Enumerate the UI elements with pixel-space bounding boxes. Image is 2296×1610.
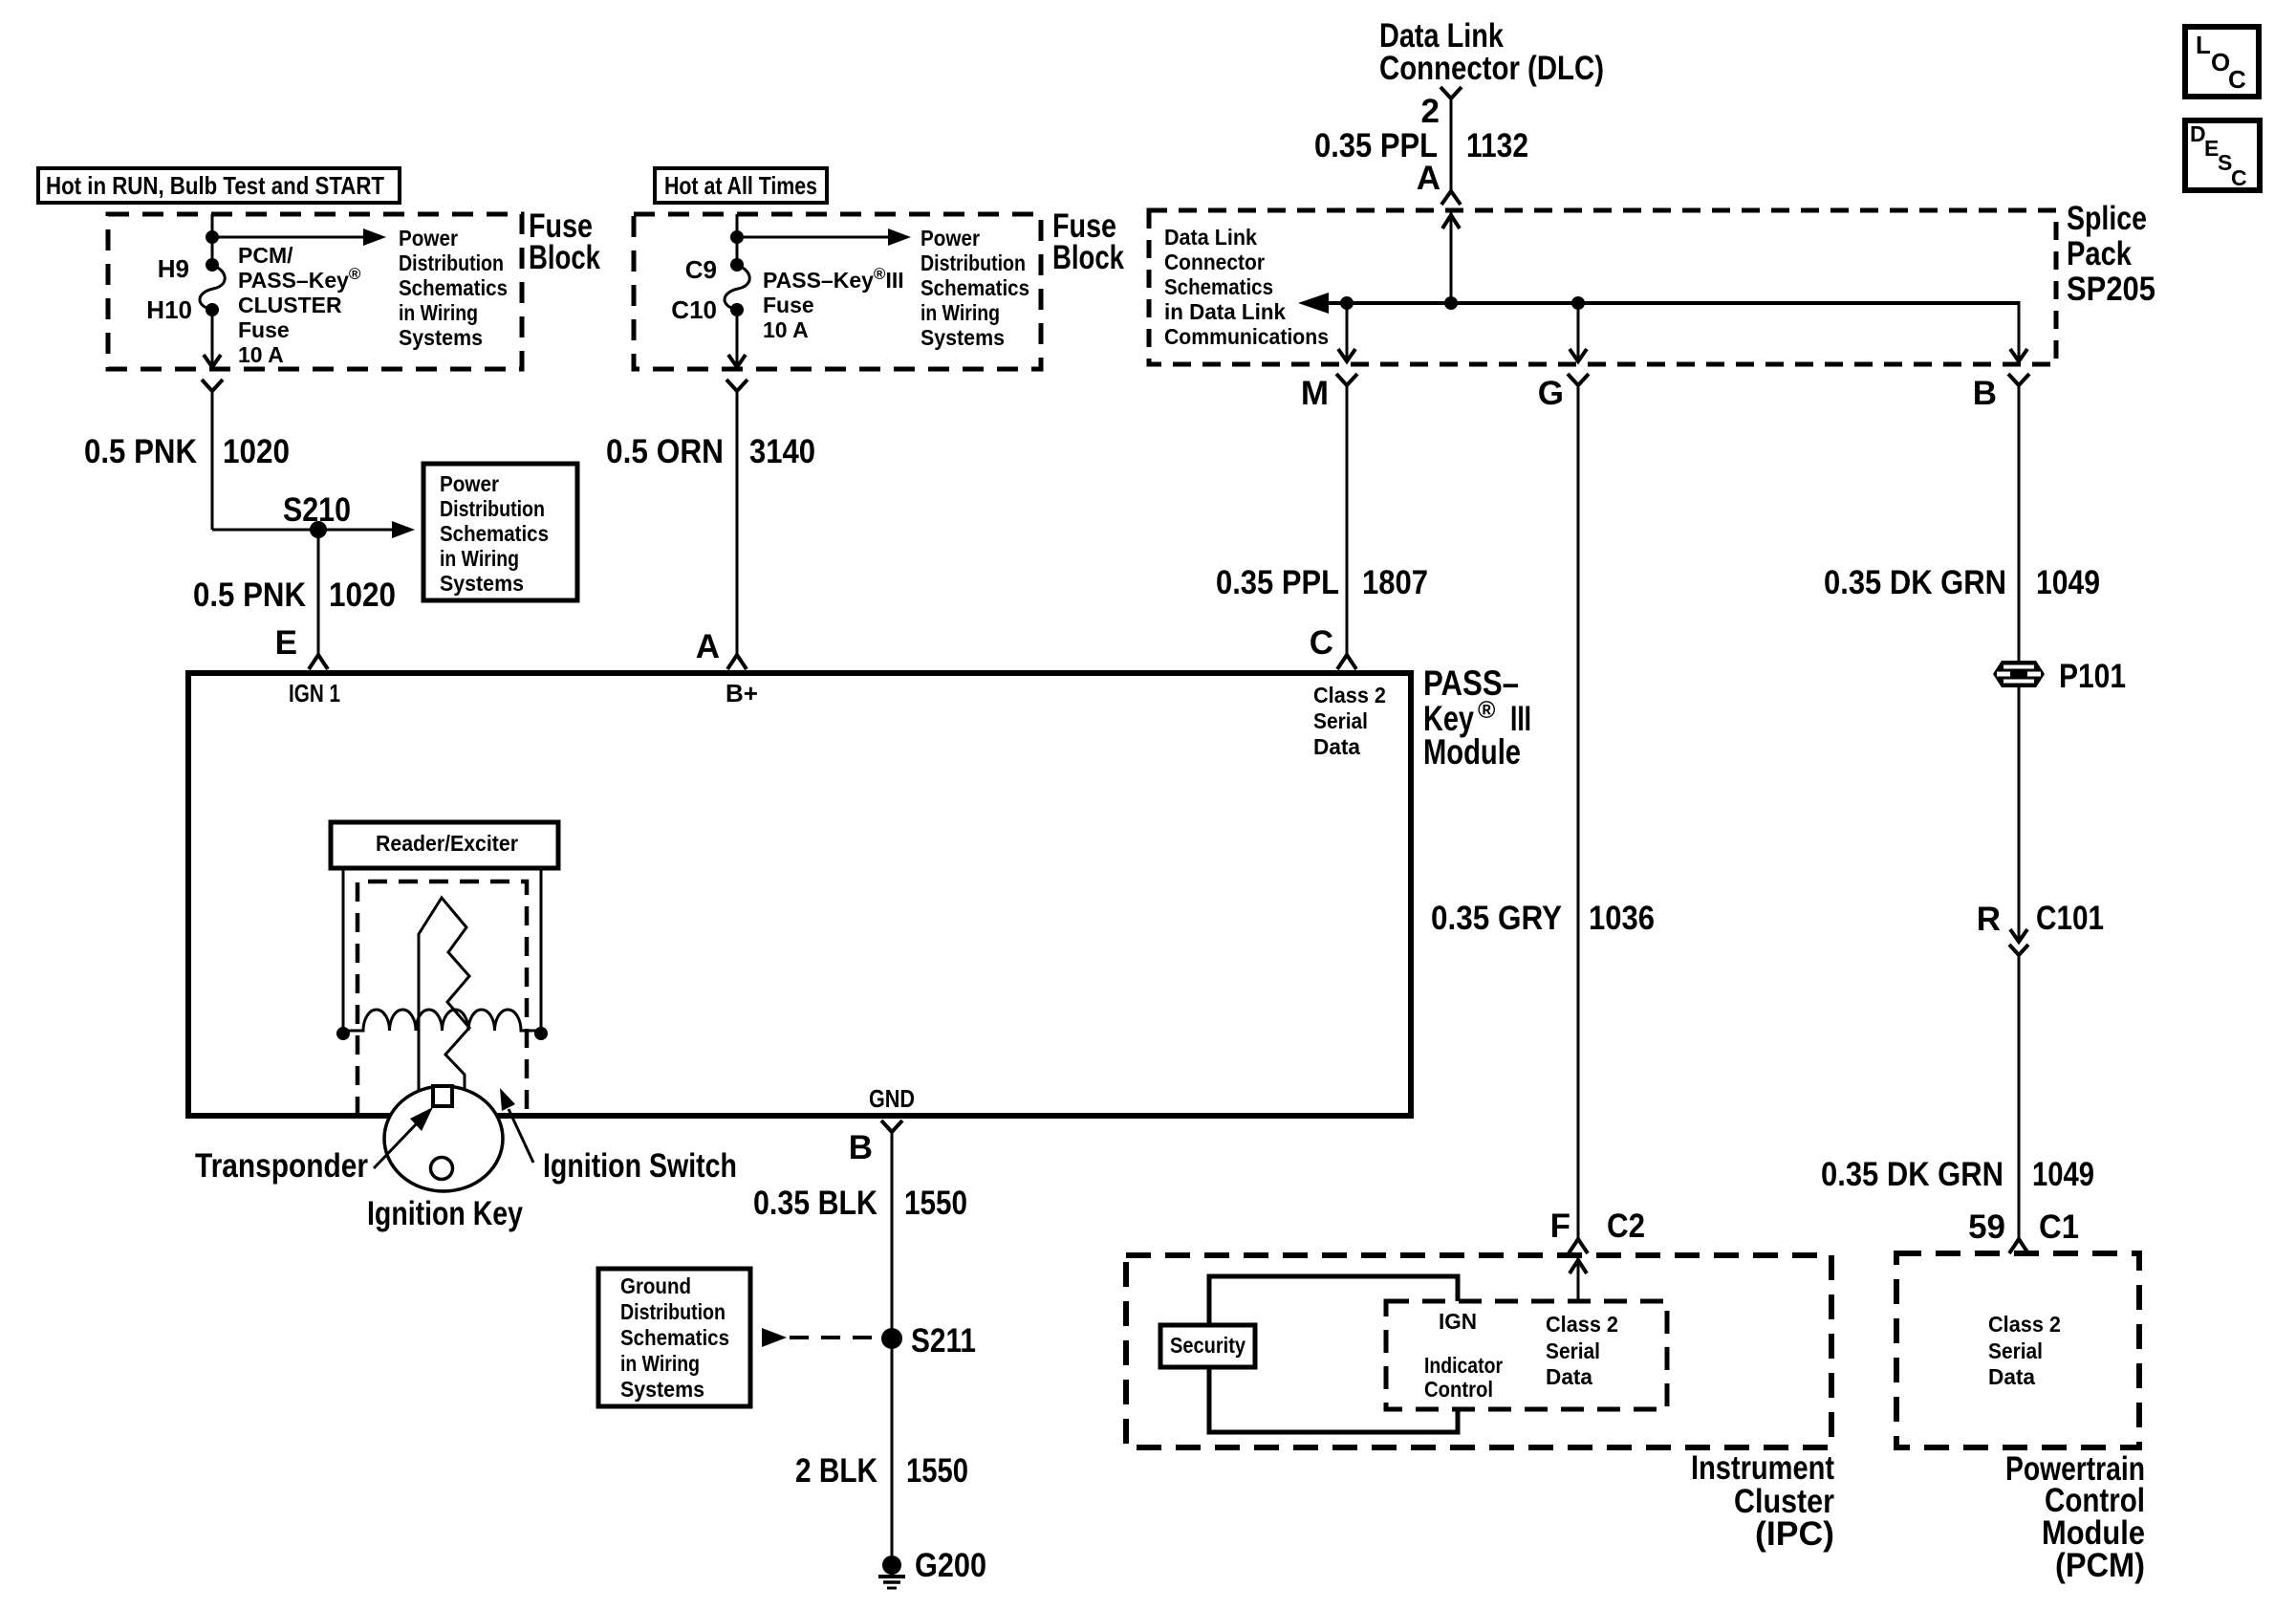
- ground G200: [878, 1547, 986, 1588]
- PASS-Key III Module (main box): [188, 673, 1411, 1116]
- svg-text:Hot at All Times: Hot at All Times: [664, 171, 817, 200]
- wire: splice bus with left arrowhead: [1298, 293, 2019, 314]
- connector at DLC pin 2: [1440, 87, 1462, 98]
- svg-text:Schematics: Schematics: [440, 521, 549, 546]
- svg-text:GND: GND: [869, 1084, 915, 1113]
- node: bus junction at A: [1444, 296, 1458, 310]
- svg-text:B: B: [1973, 375, 1997, 412]
- svg-text:Control: Control: [1424, 1377, 1493, 1402]
- wire: 0.5 ORN 3140 down to module pin A: [736, 391, 739, 654]
- svg-text:Connector: Connector: [1164, 250, 1265, 274]
- svg-text:Ignition Key: Ignition Key: [367, 1195, 523, 1232]
- wire label: 0.5 ORN | 3140: [606, 433, 815, 470]
- svg-text:10 A: 10 A: [763, 317, 809, 342]
- ignition lock cylinder (dashed box, open bottom): [357, 881, 527, 1116]
- svg-text:Fuse: Fuse: [763, 293, 814, 317]
- fuse PCM/PASS-Key CLUSTER Fuse 10 A (S-curve element): [200, 265, 225, 310]
- wire label: 0.35 DK GRN | 1049 (lower): [1821, 1156, 2094, 1193]
- fuse block 2 label: Fuse Block: [1052, 207, 1124, 276]
- node: coil right terminal: [534, 1027, 548, 1040]
- fuse PASS-Key III Fuse 10 A (S-curve element): [725, 265, 749, 310]
- svg-text:Communications: Communications: [1164, 324, 1329, 349]
- reference box: Ground Distribution Schematics in Wiring Systems: [598, 1269, 750, 1406]
- label box: Hot at All Times: [655, 168, 827, 203]
- svg-text:Systems: Systems: [620, 1377, 704, 1402]
- reference text: Power Distribution Schematics in Wiring Systems (FB1): [399, 226, 508, 350]
- dashed reference link to S211 with arrowhead: [762, 1328, 881, 1347]
- svg-text:Distribution: Distribution: [440, 496, 545, 521]
- wire: B drop with arrow at splice bottom: [2010, 301, 2027, 361]
- wire: 0.35 DK GRN 1049 from C101 to PCM pin 59: [2018, 955, 2021, 1238]
- transponder callout arrow: [374, 1107, 433, 1168]
- reference box: Power Distribution Schematics in Wiring Systems (S210): [423, 464, 577, 600]
- svg-text:Systems: Systems: [399, 325, 483, 350]
- wire: reader/exciter left leg: [342, 868, 345, 1033]
- svg-text:59: 59: [1968, 1208, 2005, 1246]
- svg-text:1049: 1049: [2036, 564, 2100, 601]
- label: Class 2 Serial Data (PCM): [1988, 1312, 2061, 1389]
- svg-text:C101: C101: [2036, 900, 2104, 937]
- svg-text:IGN 1: IGN 1: [289, 679, 340, 707]
- svg-text:B: B: [849, 1129, 873, 1166]
- wire label: 0.5 PNK | 1020 (upper): [84, 433, 290, 470]
- connector chevron below fuse block 1: [202, 380, 223, 391]
- svg-text:Distribution: Distribution: [620, 1299, 726, 1324]
- svg-text:in Wiring: in Wiring: [921, 300, 1000, 325]
- svg-text:0.35 BLK: 0.35 BLK: [753, 1185, 877, 1222]
- connector chevron below splice (G): [1568, 374, 1589, 385]
- wire: fuse block 1 feed from top edge: [211, 214, 214, 265]
- pin E connector at module: [275, 624, 328, 669]
- svg-text:H10: H10: [146, 295, 192, 324]
- svg-text:1036: 1036: [1589, 900, 1655, 937]
- svg-text:Ground: Ground: [620, 1273, 691, 1298]
- svg-text:Serial: Serial: [1313, 708, 1368, 733]
- svg-text:Instrument: Instrument: [1691, 1449, 1834, 1487]
- svg-text:C: C: [2231, 165, 2247, 190]
- svg-text:Pack: Pack: [2067, 235, 2132, 272]
- svg-text:Fuse: Fuse: [238, 317, 290, 342]
- svg-text:0.5 ORN: 0.5 ORN: [606, 433, 724, 470]
- svg-text:®: ®: [1478, 697, 1496, 724]
- svg-text:PASS–: PASS–: [1423, 664, 1519, 703]
- pin H9: [158, 254, 219, 283]
- wire: 0.5 PNK 1020 from S210 to module pin E: [317, 530, 320, 654]
- svg-text:M: M: [1301, 375, 1329, 412]
- svg-text:Block: Block: [1052, 239, 1124, 276]
- svg-text:F: F: [1550, 1207, 1570, 1245]
- fuse block 1 (dashed box): [108, 214, 522, 369]
- svg-text:1550: 1550: [906, 1452, 968, 1490]
- node: bus junction at G: [1571, 296, 1585, 310]
- wire: M drop with arrow at splice bottom: [1338, 303, 1355, 361]
- wire: P101 to connector C101: [2018, 687, 2021, 942]
- wire label: 0.5 PNK | 1020 (lower): [193, 577, 396, 614]
- svg-text:in Wiring: in Wiring: [399, 300, 478, 325]
- wire: 0.5 PNK 1020 down to S210: [211, 391, 214, 530]
- wire label: 2 BLK | 1550: [795, 1452, 968, 1490]
- connector chevron below fuse block 2: [726, 380, 747, 391]
- pin C connector at module: [1310, 624, 1356, 669]
- ignition switch callout arrow: [500, 1088, 533, 1163]
- svg-text:C2: C2: [1607, 1207, 1645, 1245]
- svg-text:Serial: Serial: [1988, 1338, 2043, 1363]
- connector chevron below module GND pin: [881, 1120, 902, 1132]
- svg-text:Schematics: Schematics: [399, 275, 508, 300]
- svg-text:Data: Data: [1988, 1364, 2035, 1389]
- fuse block 1 label: Fuse Block: [529, 207, 600, 276]
- Security label box: [1160, 1325, 1255, 1367]
- svg-text:H9: H9: [158, 254, 189, 283]
- svg-text:1020: 1020: [329, 577, 396, 614]
- wire: class 2 serial data entry into IPC with up arrow: [1570, 1258, 1587, 1301]
- connector chevron at splice pack entry: [1441, 191, 1461, 205]
- wire: fuse output down to FB2 bottom edge with arrow: [728, 310, 746, 367]
- svg-text:(IPC): (IPC): [1755, 1515, 1834, 1553]
- wire label: 0.35 DK GRN | 1049 (upper): [1824, 564, 2100, 601]
- svg-text:C: C: [1310, 624, 1333, 662]
- wire: fuse output down to FB1 bottom edge with arrow: [204, 310, 221, 367]
- pin F / C2 connector at IPC: [1550, 1207, 1645, 1253]
- module pin label: Class 2 Serial Data: [1313, 683, 1386, 759]
- wire label: 0.35 BLK | 1550: [753, 1185, 967, 1222]
- svg-text:A: A: [696, 628, 720, 665]
- svg-text:PASS–Key®: PASS–Key®: [238, 265, 361, 293]
- svg-text:Data Link: Data Link: [1164, 225, 1257, 250]
- coil (reader/exciter winding): [343, 1010, 541, 1031]
- svg-text:3140: 3140: [749, 433, 815, 470]
- svg-text:0.35 DK GRN: 0.35 DK GRN: [1824, 564, 2006, 601]
- wire: fuse block 2 feed from top edge: [736, 214, 739, 265]
- connector R / C101 (arrow into chevron): [1977, 900, 2104, 955]
- svg-text:L: L: [2196, 31, 2211, 59]
- wire: 2 BLK 1550 from S211 to G200: [891, 1338, 894, 1565]
- svg-text:PCM/: PCM/: [238, 243, 293, 268]
- svg-text:in Wiring: in Wiring: [440, 546, 519, 571]
- svg-text:Class 2: Class 2: [1988, 1312, 2061, 1337]
- svg-text:CLUSTER: CLUSTER: [238, 293, 342, 317]
- value label: PCM/ PASS-Key (R) CLUSTER Fuse 10 A: [238, 243, 361, 367]
- svg-text:Connector (DLC): Connector (DLC): [1379, 50, 1604, 87]
- ignition key hole (small circle): [431, 1158, 453, 1180]
- wire: 0.35 DK GRN 1049 from B to P101: [2018, 385, 2021, 662]
- label box: Hot in RUN, Bulb Test and START: [38, 168, 400, 203]
- svg-text:2 BLK: 2 BLK: [795, 1452, 877, 1490]
- pin C10: [671, 295, 744, 324]
- svg-text:Schematics: Schematics: [921, 275, 1029, 300]
- LOC reference box: [2185, 27, 2259, 97]
- svg-text:SP205: SP205: [2067, 271, 2155, 308]
- pin 59 / C1 connector at PCM: [1968, 1208, 2079, 1253]
- Reader/Exciter box: [331, 822, 558, 868]
- svg-text:in Wiring: in Wiring: [620, 1351, 700, 1376]
- node: junction in fuse block 1: [206, 230, 219, 244]
- svg-text:C1: C1: [2039, 1208, 2079, 1246]
- node: coil left terminal: [336, 1027, 350, 1040]
- svg-text:in Data Link: in Data Link: [1164, 299, 1286, 324]
- svg-text:Schematics: Schematics: [1164, 274, 1273, 299]
- value label: PASS-Key (R) III Fuse 10 A: [763, 265, 904, 342]
- splice pack SP205 (dashed box): [1149, 210, 2056, 364]
- svg-text:0.35 GRY: 0.35 GRY: [1431, 900, 1562, 937]
- svg-text:G200: G200: [915, 1547, 986, 1584]
- svg-text:0.35 PPL: 0.35 PPL: [1216, 564, 1339, 601]
- powertrain control module PCM (dashed box): [1896, 1253, 2139, 1447]
- reference text: Data Link Connector Schematics in Data Link Communications: [1164, 225, 1329, 349]
- svg-text:1807: 1807: [1362, 564, 1428, 601]
- instrument cluster IPC (dashed box): [1126, 1255, 1831, 1447]
- connector chevron below splice (M): [1336, 374, 1357, 385]
- wire label: 0.35 PPL | 1132: [1314, 127, 1528, 164]
- svg-text:10 A: 10 A: [238, 342, 284, 367]
- svg-text:G: G: [1538, 375, 1564, 412]
- svg-text:2: 2: [1421, 93, 1440, 130]
- svg-text:Distribution: Distribution: [921, 250, 1026, 275]
- node: splice S211: [881, 1322, 976, 1360]
- svg-text:R: R: [1977, 901, 2001, 938]
- connector chevron below splice (B): [2008, 374, 2029, 385]
- wire: 0.35 GRY 1036 from G to IPC pin F: [1577, 385, 1580, 1238]
- ignition key blade with cuts: [419, 898, 469, 1095]
- svg-text:S211: S211: [911, 1322, 976, 1360]
- wire: A entry with up arrow inside splice pack: [1442, 212, 1460, 303]
- pin C9: [685, 255, 744, 284]
- svg-text:0.5 PNK: 0.5 PNK: [193, 577, 306, 614]
- wire: G drop with arrow at splice bottom: [1570, 303, 1587, 361]
- svg-text:Splice: Splice: [2067, 200, 2147, 237]
- svg-text:Data: Data: [1313, 734, 1360, 759]
- svg-text:0.35 DK GRN: 0.35 DK GRN: [1821, 1156, 2004, 1193]
- svg-text:Block: Block: [529, 239, 600, 276]
- node: bus junction at M: [1340, 296, 1354, 310]
- svg-text:Hot in RUN, Bulb Test and STAR: Hot in RUN, Bulb Test and START: [46, 171, 384, 200]
- svg-text:IGN: IGN: [1439, 1309, 1477, 1334]
- svg-text:Schematics: Schematics: [620, 1325, 729, 1350]
- component label: Data Link Connector (DLC): [1379, 17, 1604, 87]
- svg-text:1020: 1020: [223, 433, 290, 470]
- label: Instrument Cluster (IPC): [1691, 1449, 1834, 1553]
- DESC reference box: [2185, 120, 2260, 190]
- ignition key head (circle): [384, 1086, 503, 1191]
- label: Class 2 Serial Data (IPC): [1546, 1312, 1618, 1389]
- svg-text:Security: Security: [1170, 1333, 1245, 1358]
- svg-text:Power: Power: [399, 226, 458, 250]
- svg-text:Module: Module: [1423, 732, 1521, 772]
- svg-text:B+: B+: [726, 679, 758, 707]
- svg-text:1132: 1132: [1466, 127, 1528, 164]
- pin A connector at module: [696, 628, 747, 669]
- IGN Indicator Control / Class 2 Serial Data (inner dashed box): [1386, 1301, 1667, 1409]
- svg-text:Class 2: Class 2: [1546, 1312, 1618, 1337]
- label: IGN Indicator Control: [1424, 1309, 1503, 1402]
- node: splice S210: [283, 491, 351, 538]
- wire: 0.35 PPL 1132 from DLC to splice pack: [1450, 98, 1453, 191]
- svg-text:Power: Power: [921, 226, 980, 250]
- wire: 0.35 PPL 1807 from M to module pin C: [1346, 385, 1349, 654]
- svg-text:1049: 1049: [2032, 1156, 2094, 1193]
- svg-text:Serial: Serial: [1546, 1338, 1600, 1363]
- wire: arrow to Power Distribution reference (FB2): [737, 228, 911, 246]
- transponder (square on key): [433, 1086, 452, 1106]
- label: Powertrain Control Module (PCM): [2005, 1450, 2145, 1584]
- svg-text:A: A: [1417, 160, 1440, 197]
- svg-text:Reader/Exciter: Reader/Exciter: [376, 831, 518, 856]
- wire: 0.35 BLK 1550 from GND to S211: [891, 1132, 894, 1338]
- svg-text:Indicator: Indicator: [1424, 1353, 1503, 1378]
- module name: PASS-Key (R) III Module: [1423, 664, 1531, 772]
- svg-text:Systems: Systems: [440, 571, 524, 596]
- svg-text:1550: 1550: [904, 1185, 967, 1222]
- svg-text:Power: Power: [440, 471, 499, 496]
- svg-text:Systems: Systems: [921, 325, 1005, 350]
- svg-text:P101: P101: [2059, 658, 2126, 695]
- node: junction in fuse block 2: [730, 230, 744, 244]
- wire: arrow to Power Distribution reference (FB1): [212, 228, 386, 246]
- wire: horizontal through splice S210 with arrow to reference box: [212, 521, 415, 538]
- svg-text:C10: C10: [671, 295, 717, 324]
- svg-text:(PCM): (PCM): [2055, 1547, 2145, 1584]
- svg-text:C: C: [2228, 65, 2246, 94]
- svg-text:Class 2: Class 2: [1313, 683, 1386, 707]
- svg-text:Distribution: Distribution: [399, 250, 504, 275]
- wire: reader/exciter right leg: [540, 868, 543, 1033]
- splice pack label: Splice Pack SP205: [2067, 200, 2155, 308]
- reference text: Power Distribution Schematics in Wiring Systems (FB2): [921, 226, 1029, 350]
- svg-text:C9: C9: [685, 255, 717, 284]
- wire label: 0.35 PPL | 1807: [1216, 564, 1428, 601]
- fuse block 2 (dashed box): [634, 214, 1041, 369]
- grommet P101: [1993, 658, 2126, 695]
- security indicator loop (solid rect): [1209, 1276, 1458, 1432]
- pin H10: [146, 295, 219, 324]
- svg-text:Transponder: Transponder: [195, 1147, 368, 1185]
- svg-text:Ignition Switch: Ignition Switch: [543, 1147, 737, 1185]
- svg-text:E: E: [275, 624, 297, 662]
- svg-text:Data: Data: [1546, 1364, 1592, 1389]
- wire label: 0.35 GRY | 1036: [1431, 900, 1655, 937]
- svg-text:0.5 PNK: 0.5 PNK: [84, 433, 197, 470]
